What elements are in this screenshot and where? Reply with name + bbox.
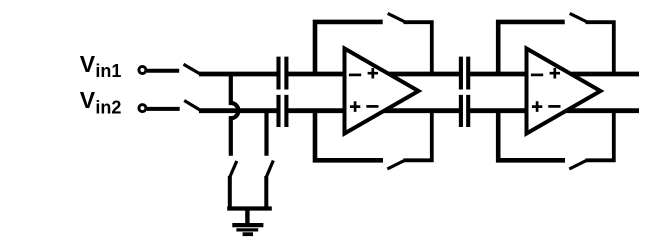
svg-text:V: V: [80, 87, 96, 113]
svg-text:in1: in1: [95, 61, 121, 81]
svg-text:in2: in2: [95, 98, 121, 118]
svg-text:V: V: [80, 51, 96, 77]
